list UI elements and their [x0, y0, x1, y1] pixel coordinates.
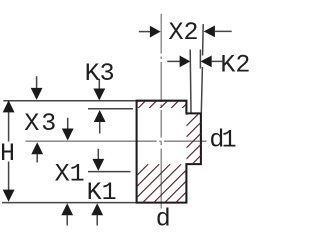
wire: top face extension line	[3, 100, 135, 102]
node: dimension H line lower	[8, 162, 10, 191]
node: K3 bottom arrow	[94, 110, 106, 122]
node: part cross-section outline	[137, 101, 201, 203]
node: K2 right arrow	[201, 56, 212, 68]
wire: X2/K2 right extension line lower	[201, 67, 202, 113]
node: X1 top arrow tail	[67, 118, 69, 129]
node: horizontal centerline axis	[26, 140, 157, 142]
node: X3 bottom arrow tail	[36, 154, 38, 163]
node: K1 bottom arrow	[91, 203, 103, 215]
svg-text:K1: K1	[87, 178, 117, 207]
svg-text:3: 3	[41, 109, 56, 138]
node: hatching top band	[138, 101, 187, 108]
node: H bottom arrow	[3, 190, 15, 202]
node: X3 top arrow	[31, 88, 43, 100]
svg-text:X2: X2	[169, 18, 199, 47]
node: H top arrow	[3, 100, 15, 112]
node: X3 top arrow tail	[36, 76, 38, 88]
node: K3 top arrow	[93, 89, 105, 101]
node: K2 left arrow tail	[167, 60, 180, 62]
node: X1 bottom arrow	[61, 203, 73, 215]
wire: K2 right extension line at arrow row	[199, 50, 201, 69]
node: X1 top arrow	[62, 129, 74, 141]
svg-text:d: d	[156, 204, 171, 233]
node: K3 top arrow tail	[98, 79, 100, 89]
wire: bottom face extension line	[2, 202, 136, 204]
svg-text:K3: K3	[85, 59, 115, 88]
node: hatching lower block	[137, 164, 187, 203]
svg-text:X: X	[24, 109, 39, 138]
wire: K1 reference line	[88, 171, 131, 173]
node: X1 bottom arrow tail	[66, 215, 68, 226]
node: K3 bottom arrow tail	[99, 122, 101, 134]
node: K1 top arrow	[92, 159, 104, 171]
node: dimension H line upper	[8, 112, 10, 142]
node: hatching right outlet strip	[186, 114, 201, 164]
node: X2 left arrow tail	[139, 31, 150, 33]
node: K2 left arrow	[180, 56, 191, 68]
node: K1 bottom arrow tail	[96, 215, 98, 226]
wire: K2 left extension line	[189, 50, 192, 113]
node: vertical centerline axis	[160, 14, 162, 54]
node: X2 left arrow	[150, 26, 161, 38]
svg-text:H: H	[0, 139, 15, 168]
wire: K3 reference line	[88, 108, 133, 110]
svg-text:1: 1	[222, 126, 237, 155]
node: K2 right arrow tail	[211, 60, 222, 62]
svg-text:X1: X1	[55, 159, 85, 188]
node: X2 right arrow	[204, 26, 215, 38]
node: X2 right arrow tail	[215, 30, 232, 32]
wire: X2/K2 right extension line upper	[202, 24, 205, 56]
svg-text:K2: K2	[220, 50, 250, 79]
node: X3 bottom arrow	[31, 142, 43, 154]
node: K1 top arrow tail	[97, 149, 99, 159]
